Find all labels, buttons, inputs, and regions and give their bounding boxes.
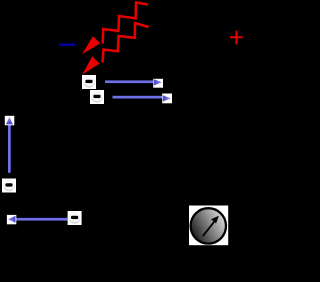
velocity arrow D head box [7, 215, 16, 224]
velocity arrow C wire (vertical) [8, 124, 11, 173]
ammeter background square [189, 206, 228, 246]
velocity arrow D wire [16, 218, 68, 221]
velocity arrow D head (left) [8, 216, 16, 223]
electron E4 (bottom) [68, 211, 82, 225]
velocity arrow A head [154, 79, 162, 85]
photon wave 2 [103, 23, 149, 63]
velocity arrow A head box [153, 79, 163, 88]
positive terminal (red plus) [230, 31, 243, 45]
velocity arrow B head [163, 95, 171, 101]
negative terminal (blue minus) [59, 43, 75, 46]
photon wave 1 [103, 3, 148, 44]
photon wave 2 arrowhead [82, 56, 99, 74]
ammeter needle [203, 221, 215, 236]
velocity arrow A wire [105, 80, 154, 83]
velocity arrow B wire [113, 96, 163, 99]
electron E1 (at emitter) [82, 75, 96, 89]
photon wave 1 arrowhead [82, 36, 100, 54]
electron E2 [90, 90, 104, 104]
velocity arrow B head box [162, 94, 172, 104]
electron E3 (left) [2, 179, 16, 193]
ammeter needle head [211, 216, 219, 224]
ammeter dial [191, 208, 226, 243]
velocity arrow C head box [5, 116, 15, 126]
velocity arrow C head (up) [6, 117, 13, 125]
